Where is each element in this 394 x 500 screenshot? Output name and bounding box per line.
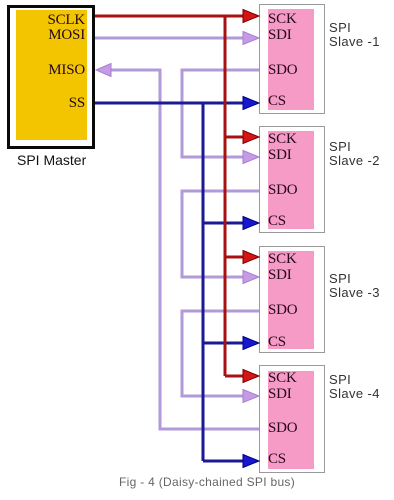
- slave U4 pin SDO: [268, 302, 297, 318]
- slave U2 label SPI Slave -1: [329, 21, 380, 49]
- slave U2 outer box: [259, 4, 325, 114]
- slave U5 pin CS: [268, 451, 286, 467]
- slave U4 outer box: [259, 246, 325, 353]
- arrowhead MISO into master: [96, 64, 111, 77]
- slave U3 pink fill: [268, 131, 314, 229]
- master pin MISO: [20, 62, 85, 78]
- slave U5 pins SCK SDI: [268, 370, 297, 402]
- slave U3 pin CS: [268, 213, 286, 229]
- slave U5 label SPI Slave -4: [329, 373, 380, 401]
- arrowhead SCK slave1: [243, 10, 259, 23]
- slave U4 pins SCK SDI: [268, 251, 297, 283]
- slave U4 label SPI Slave -3: [329, 272, 380, 300]
- arrowhead CS slave1: [243, 97, 259, 110]
- arrowhead SCK slave3: [243, 251, 259, 264]
- caption Fig - 4: [119, 475, 295, 489]
- wire SCLK bus master to all SCK: [95, 16, 245, 376]
- arrowhead SCK slave4: [243, 370, 259, 383]
- slave U3 pins SCK SDI: [268, 131, 297, 163]
- slave U5 outer box: [259, 365, 325, 473]
- wire MISO return: slave4 SDO to master MISO: [108, 70, 259, 429]
- arrowhead CS slave4: [243, 455, 259, 468]
- slave U2 pins SCK SDI: [268, 11, 297, 43]
- arrowhead SDI slave1: [243, 32, 259, 45]
- slave U2 pin CS: [268, 93, 286, 109]
- SPI Master yellow fill: [16, 10, 87, 140]
- slave U2 pink fill: [268, 9, 314, 110]
- arrowhead SDI slave3: [243, 271, 259, 284]
- arrowhead CS slave3: [243, 337, 259, 350]
- master pin MOSI: [20, 27, 85, 43]
- arrowhead SDI slave4: [243, 390, 259, 403]
- slave U4 pink fill: [268, 251, 314, 349]
- slave U3 label SPI Slave -2: [329, 140, 380, 168]
- slave U3 outer box: [259, 126, 325, 233]
- slave U5 pink fill: [268, 371, 314, 469]
- master pin SS: [20, 95, 85, 111]
- slave U5 pin SDO: [268, 420, 297, 436]
- wire SDO chain slave2 to slave3 SDI: [182, 191, 259, 277]
- wire MOSI master to slave1 SDI: [95, 37, 245, 40]
- wire SS bus master to all CS: [95, 103, 245, 461]
- SPI Master U1 box: [7, 5, 95, 149]
- arrowhead SCK slave2: [243, 131, 259, 144]
- wire SDO chain slave3 to slave4 SDI: [182, 311, 259, 396]
- slave U3 pin SDO: [268, 182, 297, 198]
- wire SDO chain slave1 to slave2 SDI: [182, 70, 259, 157]
- master pin SCLK: [20, 12, 85, 28]
- arrowhead SDI slave2: [243, 151, 259, 164]
- slave U2 pin SDO: [268, 62, 297, 78]
- arrowhead CS slave2: [243, 217, 259, 230]
- master label SPI Master: [17, 152, 86, 168]
- slave U4 pin CS: [268, 334, 286, 350]
